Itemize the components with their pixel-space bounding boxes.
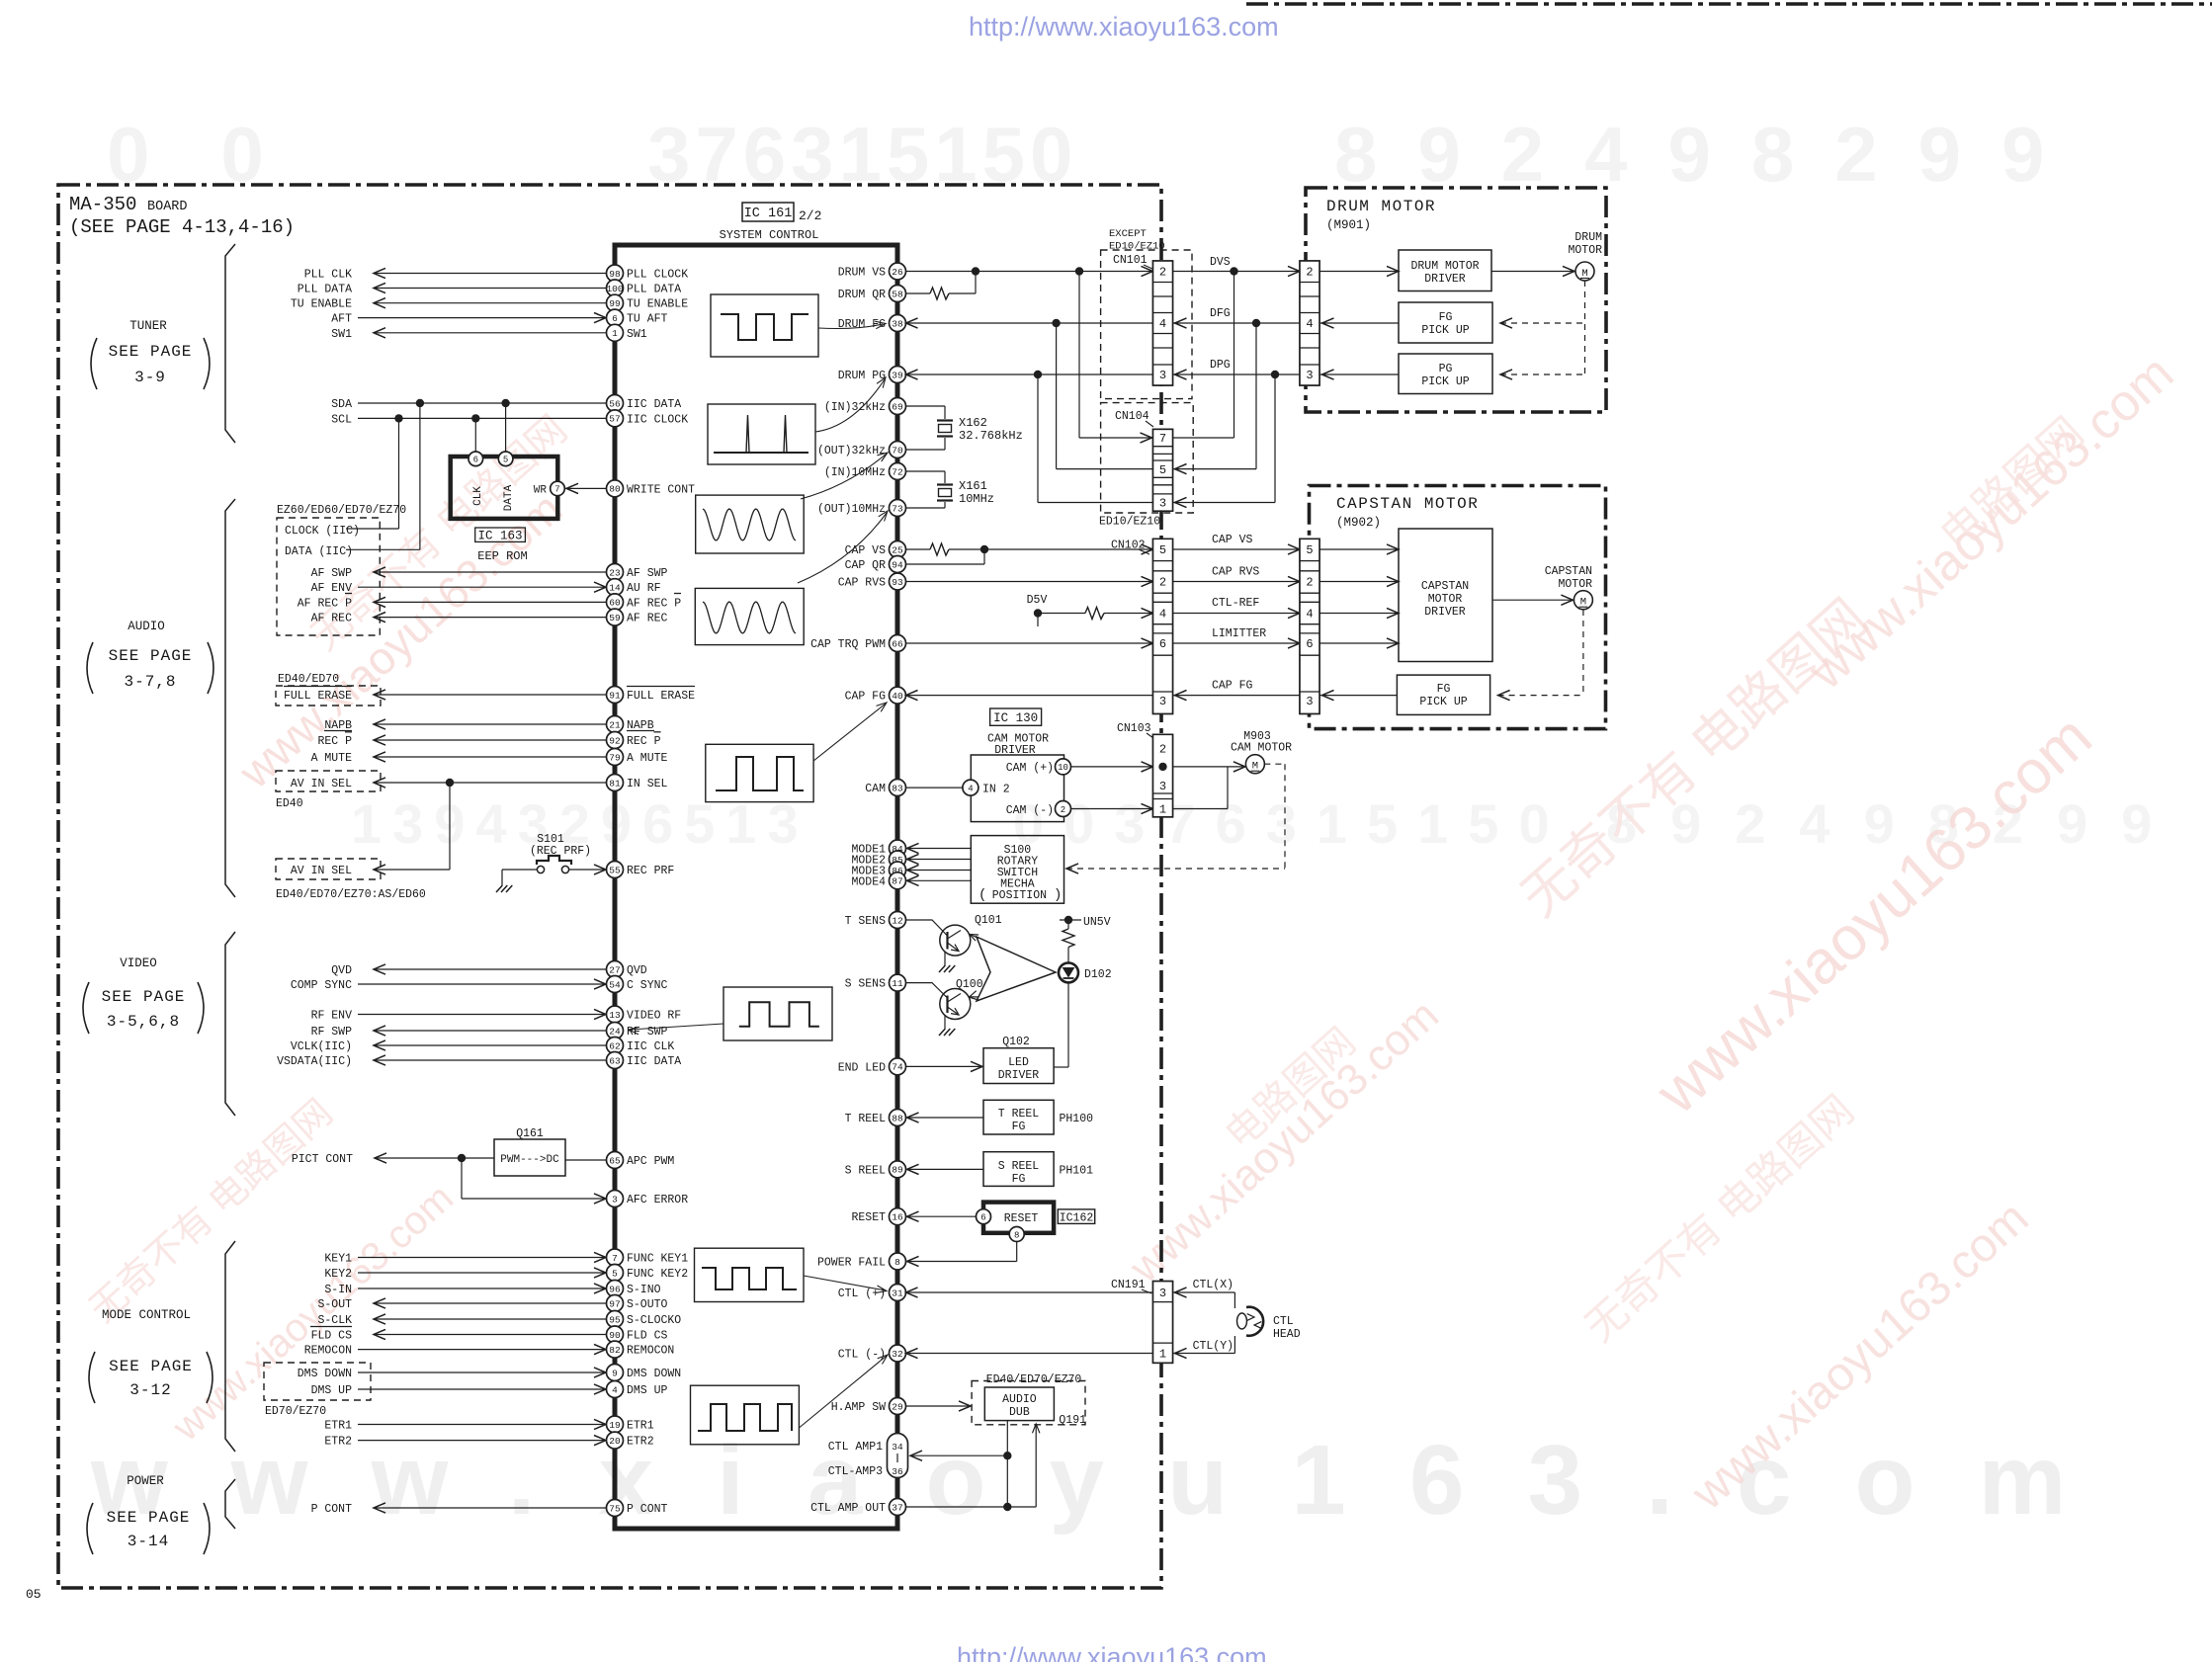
wire DVS to CN104 pin7 left [1078, 272, 1080, 439]
wire H.AMP SW to audio dub [906, 1405, 972, 1407]
svg-text:9: 9 [612, 1368, 618, 1378]
wire/pin 3 AFC ERROR [607, 1191, 624, 1207]
svg-text:3-12: 3-12 [129, 1381, 171, 1399]
svg-text:69: 69 [892, 401, 903, 412]
svg-text:81: 81 [609, 778, 621, 789]
svg-text:ED70/EZ70: ED70/EZ70 [265, 1405, 326, 1418]
bracket tuner group [225, 244, 235, 443]
svg-text:3: 3 [1306, 369, 1313, 382]
svg-text:4: 4 [1306, 608, 1313, 622]
pin 12 T SENS [890, 912, 906, 929]
svg-text:92: 92 [609, 735, 621, 746]
wire DPG to CN104 pin3 left [1037, 374, 1039, 503]
pin 2 CAM- [1056, 801, 1071, 817]
svg-text:05: 05 [26, 1587, 42, 1602]
wire CAM+ to CN103 [1071, 766, 1153, 768]
svg-text:AFT: AFT [331, 313, 352, 326]
IC U161 system control outline [615, 245, 897, 1529]
svg-text:AFC ERROR: AFC ERROR [627, 1194, 688, 1206]
block cam motor driver U130 [971, 755, 1063, 822]
pin 5 DATA of IC163 [498, 452, 513, 466]
svg-text:5: 5 [1159, 463, 1166, 477]
svg-text:1: 1 [612, 328, 618, 339]
svg-text:83: 83 [892, 783, 903, 793]
svg-text:VIDEO RF: VIDEO RF [627, 1010, 681, 1023]
svg-text:CTL (-): CTL (-) [838, 1349, 886, 1362]
svg-text:PICT CONT: PICT CONT [292, 1153, 353, 1166]
svg-text:DPG: DPG [1210, 359, 1231, 372]
connector CN104 dashed outline [1101, 403, 1194, 513]
svg-text:CAPSTAN MOTOR: CAPSTAN MOTOR [1336, 495, 1479, 513]
wire DFG to CN104 pin5 right [1255, 323, 1257, 469]
svg-text:5: 5 [1306, 543, 1313, 557]
svg-text:REMOCON: REMOCON [627, 1345, 674, 1358]
svg-text:SEE PAGE: SEE PAGE [109, 343, 193, 361]
svg-text:ED40/ED70/EZ70: ED40/ED70/EZ70 [986, 1373, 1082, 1386]
dashed box CLOCK/DATA IIC [277, 518, 380, 635]
svg-text:UN5V: UN5V [1083, 916, 1111, 929]
svg-text:79: 79 [609, 752, 621, 763]
ground S101 [496, 885, 502, 892]
svg-text:CAPSTAN: CAPSTAN [1421, 580, 1469, 593]
wire DPG net [906, 374, 1153, 375]
svg-text:LIMITTER: LIMITTER [1212, 627, 1266, 640]
svg-text:P CONT: P CONT [627, 1503, 668, 1516]
svg-text:KEY1: KEY1 [324, 1253, 352, 1266]
svg-text:80: 80 [609, 484, 621, 495]
svg-text:5: 5 [612, 1268, 618, 1279]
svg-text:T REEL: T REEL [998, 1108, 1040, 1121]
svg-text:PICK UP: PICK UP [1421, 375, 1469, 388]
pin 8 of IC162 [1009, 1227, 1024, 1242]
svg-text:X162: X162 [959, 416, 987, 430]
dashed box AV IN SEL upper [276, 771, 381, 791]
svg-text:DMS UP: DMS UP [627, 1384, 668, 1397]
pin 73 (OUT)10MHz [890, 500, 906, 517]
pin 8 POWER FAIL [890, 1253, 906, 1270]
svg-text:(IN)10MHz: (IN)10MHz [824, 466, 886, 479]
svg-text:P CONT: P CONT [311, 1503, 353, 1516]
pin 6 CLK of IC163 [468, 452, 483, 466]
svg-text:892498299: 892498299 [1606, 792, 2185, 855]
svg-text:66: 66 [892, 638, 903, 649]
svg-text:PICK UP: PICK UP [1421, 324, 1469, 337]
svg-text:MOTOR: MOTOR [1558, 578, 1592, 591]
waveform box square VIDEO RF [723, 987, 832, 1040]
svg-text:AV IN SEL: AV IN SEL [291, 865, 352, 877]
pin 72 (IN)10MHz [890, 463, 906, 480]
wire CAM- to CN103 pin1 [1071, 808, 1153, 810]
svg-text:99: 99 [609, 298, 621, 309]
dashed box AV IN SEL lower [276, 859, 381, 879]
pointer sine1 to pin 70 [801, 454, 887, 499]
wires MODE1-4 to S100 [907, 848, 972, 850]
svg-text:REC PRF: REC PRF [627, 865, 674, 877]
svg-text:892498299: 892498299 [1334, 111, 2084, 198]
pointer sine2 to pin 73 [798, 513, 887, 583]
svg-text:58: 58 [892, 289, 903, 299]
svg-text:FUNC KEY1: FUNC KEY1 [627, 1253, 688, 1266]
svg-text:2: 2 [1159, 266, 1166, 280]
underline NAPB labels [324, 730, 352, 732]
svg-text:5: 5 [503, 456, 508, 465]
svg-text:PLL DATA: PLL DATA [627, 284, 681, 296]
svg-text:DRIVER: DRIVER [1424, 606, 1466, 619]
svg-text:ED40/ED70: ED40/ED70 [278, 673, 339, 686]
resistor R drum QR [906, 292, 931, 294]
svg-text:29: 29 [892, 1401, 903, 1412]
wire DVS net [906, 271, 1153, 273]
ground Q101 [944, 953, 946, 966]
svg-text:DVS: DVS [1210, 256, 1231, 269]
wire CAP RVS net [906, 581, 1153, 583]
svg-text:DMS DOWN: DMS DOWN [298, 1368, 352, 1380]
svg-text:DRUM MOTOR: DRUM MOTOR [1410, 260, 1479, 273]
drum motor unit dash-dot box M901 [1306, 188, 1606, 412]
top dash-dot line segment right [1246, 2, 2212, 6]
svg-text:32: 32 [892, 1349, 903, 1360]
svg-text:SYSTEM CONTROL: SYSTEM CONTROL [720, 228, 819, 242]
svg-text:ETR1: ETR1 [627, 1420, 654, 1433]
svg-text:54: 54 [609, 979, 621, 990]
waveform box square wave 1 [711, 294, 818, 357]
svg-text:IIC DATA: IIC DATA [627, 1055, 681, 1068]
svg-text:http://www.xiaoyu163.com: http://www.xiaoyu163.com [969, 12, 1279, 42]
svg-text:CTL(X): CTL(X) [1193, 1279, 1234, 1291]
svg-text:VSDATA(IIC): VSDATA(IIC) [277, 1055, 352, 1068]
svg-text:PG: PG [1439, 363, 1453, 375]
wire pin83 CAM to IN2 [906, 787, 963, 789]
svg-text:CTL(Y): CTL(Y) [1193, 1340, 1234, 1353]
block T REEL FG PH100 [983, 1100, 1054, 1134]
wire CTL(Y) [1173, 1353, 1235, 1355]
pointer waveform8 to pin 32 [799, 1356, 887, 1428]
svg-text:40: 40 [892, 691, 903, 702]
svg-text:DMS UP: DMS UP [311, 1384, 353, 1397]
svg-text:EEP ROM: EEP ROM [477, 549, 527, 563]
svg-text:D5V: D5V [1027, 594, 1048, 607]
svg-text:AF REC: AF REC [627, 613, 668, 625]
svg-text:S-INO: S-INO [627, 1284, 661, 1296]
block FG pick up capstan [1397, 675, 1489, 714]
svg-text:A MUTE: A MUTE [627, 752, 668, 765]
svg-text:FG: FG [1012, 1121, 1026, 1133]
svg-text:AF REC P: AF REC P [298, 597, 352, 610]
svg-text:X161: X161 [959, 479, 987, 493]
svg-text:2: 2 [1306, 576, 1313, 590]
svg-text:6: 6 [980, 1213, 985, 1223]
IC U163 EEPROM box [451, 457, 558, 519]
svg-text:Q161: Q161 [516, 1127, 544, 1140]
svg-text:POWER FAIL: POWER FAIL [817, 1257, 886, 1270]
svg-text:19: 19 [609, 1420, 621, 1431]
svg-text:97: 97 [609, 1298, 620, 1309]
connector CN101 cells top [1153, 261, 1173, 385]
IC 130 label box [990, 708, 1042, 725]
svg-text:2: 2 [1159, 743, 1166, 757]
wire WRITE CONT to WR [565, 487, 607, 489]
svg-text:DFG: DFG [1210, 307, 1231, 320]
waveform box pulses 32kHz [708, 404, 815, 464]
svg-text:CAP RVS: CAP RVS [1212, 566, 1259, 579]
IC 163 label box [475, 528, 526, 541]
IC 162 reset block [983, 1203, 1054, 1233]
wire CTL(X) [1173, 1291, 1235, 1293]
svg-text:4: 4 [968, 784, 973, 793]
svg-text:ETR2: ETR2 [324, 1436, 352, 1449]
svg-text:31: 31 [892, 1288, 903, 1298]
svg-text:CN104: CN104 [1115, 410, 1149, 423]
svg-text:4: 4 [1159, 608, 1166, 622]
connector drum motor board [1300, 261, 1319, 385]
block S REEL FG PH101 [983, 1152, 1054, 1187]
pin 85 MODE2 [890, 851, 906, 868]
svg-text:QVD: QVD [627, 964, 647, 977]
pin 70 (OUT)32kHz [890, 442, 906, 458]
svg-text:(IN)32kHz: (IN)32kHz [824, 401, 886, 414]
svg-text:(M902): (M902) [1336, 516, 1381, 530]
svg-text:DRUM: DRUM [1574, 231, 1602, 244]
pin 74 END LED [890, 1058, 906, 1075]
pin 29 H.AMP SW [890, 1398, 906, 1415]
wire SCL to EEPROM CLK pin 6 [474, 418, 476, 452]
svg-text:6: 6 [1306, 637, 1313, 651]
svg-text:ED10/EZ10: ED10/EZ10 [1099, 516, 1160, 529]
dashed feedback capstan motor to FG [1582, 610, 1584, 696]
svg-text:AF SWP: AF SWP [311, 567, 353, 580]
svg-text:AUDIO: AUDIO [128, 620, 165, 633]
svg-text:ED40/ED70/EZ70:AS/ED60: ED40/ED70/EZ70:AS/ED60 [276, 888, 426, 901]
wire SCL to CLOCK(IIC) [398, 418, 400, 529]
wire CTL- to CN191 pin1 [906, 1353, 1153, 1355]
svg-text:93: 93 [892, 577, 903, 588]
svg-text:TUNER: TUNER [129, 319, 167, 333]
wire AV IN SEL junction [446, 779, 454, 787]
svg-text:EZ60/ED60/ED70/EZ70: EZ60/ED60/ED70/EZ70 [277, 504, 406, 517]
MA-350 board dash-dot border [58, 185, 1161, 1588]
svg-text:H.AMP SW: H.AMP SW [831, 1401, 886, 1414]
pin 58 DRUM QR [890, 286, 906, 302]
svg-text:IIC CLK: IIC CLK [627, 1040, 674, 1053]
wire/pin 55 REC PRF [607, 862, 624, 878]
svg-text:S-OUT: S-OUT [317, 1298, 352, 1311]
dashed box FULL ERASE [276, 686, 381, 706]
connector CN104 cells top [1153, 429, 1173, 511]
svg-text:BOARD: BOARD [147, 200, 188, 214]
amplifier arrow to D102 [977, 937, 1056, 1001]
svg-text:FG: FG [1439, 311, 1453, 324]
svg-text:13: 13 [609, 1010, 621, 1021]
motor M902 circle [1574, 591, 1592, 610]
svg-text:Q101: Q101 [975, 914, 1002, 927]
pin 25 CAP VS [890, 541, 906, 558]
svg-text:25: 25 [892, 544, 903, 555]
pin 94 CAP QR [890, 556, 906, 573]
pin 93 CAP RVS [890, 573, 906, 590]
svg-text:D102: D102 [1084, 968, 1112, 981]
svg-text:24: 24 [609, 1026, 621, 1037]
svg-text:http://www.xiaoyu163.com: http://www.xiaoyu163.com [957, 1642, 1267, 1662]
svg-text:DATA: DATA [503, 484, 515, 511]
svg-text:DRUM MOTOR: DRUM MOTOR [1326, 198, 1436, 215]
svg-text:AU RF: AU RF [627, 582, 661, 595]
svg-text:EXCEPT: EXCEPT [1109, 228, 1147, 240]
waveform box sine 2 [695, 588, 804, 644]
svg-text:96: 96 [609, 1284, 621, 1294]
svg-text:3-9: 3-9 [134, 369, 166, 386]
svg-text:74: 74 [892, 1062, 903, 1073]
svg-text:IC 161: IC 161 [744, 207, 793, 221]
svg-text:3-5,6,8: 3-5,6,8 [107, 1013, 180, 1031]
svg-text:CTL AMP1: CTL AMP1 [828, 1441, 883, 1454]
pin 11 S SENS [890, 974, 906, 991]
svg-text:CAM: CAM [865, 783, 886, 795]
pins 34/36 CTL AMP stadium [888, 1434, 908, 1478]
svg-text:IC162: IC162 [1060, 1211, 1094, 1224]
svg-text:ED10/EZ10: ED10/EZ10 [1109, 241, 1165, 253]
connector drum motor board cells top [1300, 261, 1319, 385]
svg-text:5: 5 [1159, 543, 1166, 557]
svg-text:20: 20 [609, 1436, 621, 1447]
pin 31 CTL (+) [890, 1285, 906, 1301]
wire drum driver to motor [1491, 271, 1574, 273]
svg-text:S SENS: S SENS [845, 978, 887, 991]
svg-text:SEE PAGE: SEE PAGE [107, 1509, 191, 1527]
wire DPG to CN104 pin3 right [1274, 374, 1276, 503]
svg-text:DRUM QR: DRUM QR [838, 289, 886, 301]
svg-text:57: 57 [609, 414, 620, 425]
svg-text:CN191: CN191 [1111, 1279, 1146, 1291]
svg-text:DATA (IIC): DATA (IIC) [285, 545, 353, 558]
waveform box square pulses CAP FG [706, 744, 813, 801]
svg-text:95: 95 [609, 1314, 621, 1325]
wire D102 to LED driver [1067, 982, 1069, 1067]
svg-text:MOTOR: MOTOR [1568, 244, 1602, 257]
svg-text:21: 21 [609, 719, 621, 730]
pin 7 WR of IC163 [551, 481, 565, 496]
svg-text:CTL: CTL [1273, 1315, 1294, 1328]
svg-text:37: 37 [892, 1502, 902, 1513]
wire connector to drum driver [1319, 271, 1399, 273]
wire CAP FG net [1319, 695, 1397, 697]
crystal X161 10MHz [906, 470, 946, 472]
svg-text:8: 8 [1014, 1230, 1019, 1240]
svg-text:APC PWM: APC PWM [627, 1155, 674, 1168]
pin 40 CAP FG [890, 687, 906, 704]
pin 66 CAP TRQ PWM [890, 635, 906, 652]
motor M903 circle [1245, 755, 1264, 774]
connector capstan motor board [1300, 539, 1319, 713]
svg-text:POWER: POWER [127, 1474, 164, 1488]
svg-text:2: 2 [1306, 266, 1313, 280]
wire S101 to pin 55 [569, 869, 605, 871]
svg-text:8: 8 [894, 1257, 900, 1268]
pin 84 MODE1 [890, 840, 906, 857]
svg-text:FG: FG [1012, 1173, 1026, 1186]
dashed box audio dub Q191 [972, 1381, 1085, 1425]
svg-text:7: 7 [612, 1253, 618, 1264]
svg-text:70: 70 [892, 445, 903, 456]
svg-text:T SENS: T SENS [845, 915, 887, 928]
svg-text:6: 6 [1159, 637, 1166, 651]
svg-text:PH100: PH100 [1060, 1113, 1094, 1125]
svg-text:11: 11 [892, 978, 903, 989]
svg-text:75: 75 [609, 1503, 621, 1514]
wire END LED to LED driver [906, 1065, 983, 1067]
svg-text:FUNC KEY2: FUNC KEY2 [627, 1268, 688, 1281]
svg-text:26: 26 [892, 267, 903, 278]
pointer waveform2 to pin 39 [815, 379, 885, 432]
dashed box DMS DOWN/UP [264, 1363, 371, 1400]
svg-text:IC 130: IC 130 [993, 711, 1038, 725]
svg-text:FLD CS: FLD CS [627, 1330, 668, 1343]
svg-text:SCL: SCL [331, 413, 352, 426]
svg-text:RESET: RESET [1004, 1212, 1039, 1225]
svg-text:CN103: CN103 [1117, 722, 1151, 735]
svg-text:3: 3 [1159, 369, 1166, 382]
connector CN191 cells top [1153, 1282, 1173, 1364]
pin 4 IN2 [963, 780, 978, 795]
pin 37 CTL AMP OUT [890, 1499, 906, 1516]
pin 89 S REEL [890, 1161, 906, 1178]
pin 39 DRUM PG [890, 367, 906, 383]
svg-text:82: 82 [609, 1345, 621, 1356]
connector CN103 cells top [1153, 734, 1173, 817]
svg-text:LED: LED [1008, 1056, 1029, 1069]
wire Q161 to pin 65 APC PWM [565, 1159, 607, 1161]
svg-text:www.xiaoyu163.com: www.xiaoyu163.com [90, 1425, 2129, 1536]
svg-text:CTL-REF: CTL-REF [1212, 597, 1259, 610]
svg-text:94: 94 [892, 559, 903, 570]
svg-text:DUB: DUB [1009, 1406, 1030, 1419]
svg-text:60: 60 [609, 598, 621, 609]
bracket power group [225, 1479, 235, 1529]
svg-text:CAP FG: CAP FG [1212, 680, 1253, 693]
svg-text:63: 63 [609, 1055, 621, 1066]
svg-text:2: 2 [1159, 576, 1166, 590]
svg-text:MODE CONTROL: MODE CONTROL [102, 1308, 191, 1322]
pin 16 RESET [890, 1208, 906, 1225]
svg-text:3: 3 [1306, 695, 1313, 708]
svg-text:3-7,8: 3-7,8 [124, 673, 176, 691]
wire LIMITTER net [906, 642, 1153, 644]
svg-text:IIC CLOCK: IIC CLOCK [627, 413, 688, 426]
svg-text:7: 7 [554, 485, 559, 495]
CTL head symbol [1246, 1307, 1263, 1336]
svg-text:88: 88 [892, 1113, 903, 1123]
svg-text:12: 12 [892, 915, 903, 926]
pin 38 DRUM FG [890, 315, 906, 332]
svg-text:FG: FG [1437, 683, 1451, 696]
svg-text:1: 1 [1159, 803, 1166, 817]
pin 6 of IC162 [977, 1209, 991, 1224]
wire audio dub to CTL amp [1006, 1421, 1008, 1507]
svg-text:ETR2: ETR2 [627, 1436, 654, 1449]
connector CN101 dashed outline [1101, 250, 1192, 399]
svg-text:REC P: REC P [627, 735, 661, 748]
svg-text:4: 4 [1306, 317, 1313, 331]
bracket audio group [225, 499, 235, 897]
svg-text:3: 3 [612, 1194, 618, 1205]
svg-text:SW1: SW1 [627, 328, 647, 341]
pointer waveform5 to pin 40 [813, 704, 886, 761]
svg-text:DRIVER: DRIVER [1424, 273, 1466, 286]
svg-text:(M901): (M901) [1326, 218, 1371, 232]
pin 26 DRUM VS [890, 263, 906, 280]
svg-text:Q102: Q102 [1002, 1036, 1030, 1048]
overline REC P labels [345, 731, 352, 733]
svg-text:98: 98 [609, 269, 621, 280]
